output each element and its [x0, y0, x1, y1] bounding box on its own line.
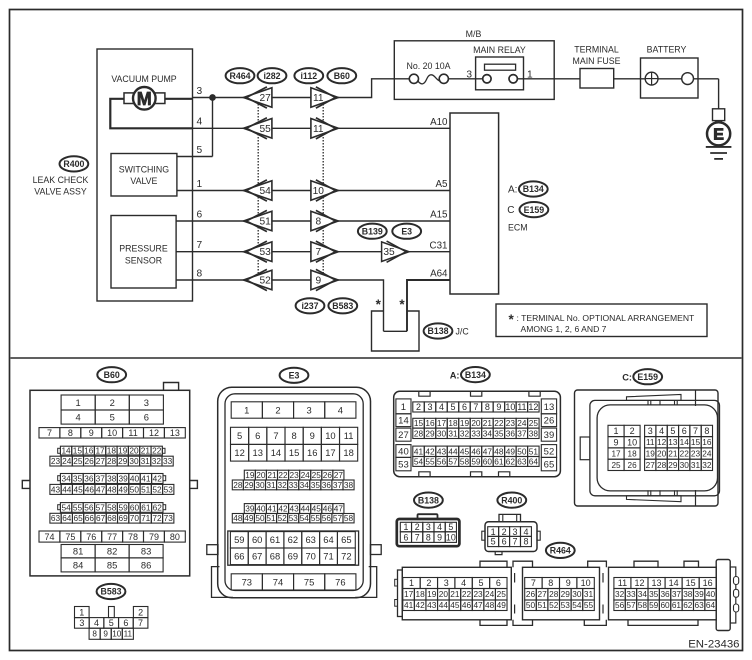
label i282	[258, 68, 287, 83]
svg-text:4: 4	[76, 411, 81, 422]
label R464 (schematic)	[226, 68, 255, 83]
svg-text:30: 30	[680, 460, 690, 470]
svg-text:A:: A:	[450, 370, 460, 380]
svg-text:20: 20	[256, 470, 266, 480]
svg-text:53: 53	[164, 484, 174, 494]
svg-text:7: 7	[693, 426, 698, 436]
R464 pins 11-16	[614, 578, 631, 589]
svg-text:26: 26	[323, 470, 333, 480]
svg-text:83: 83	[141, 546, 151, 557]
svg-text:R464: R464	[550, 546, 571, 556]
svg-text:C31: C31	[430, 240, 448, 251]
E3 pins 5-11	[231, 427, 249, 444]
svg-text:40: 40	[256, 504, 266, 514]
joint connector internal link	[384, 330, 408, 332]
svg-text:4: 4	[659, 426, 664, 436]
svg-text:61: 61	[672, 600, 682, 610]
svg-text:M: M	[137, 89, 152, 109]
svg-text:15: 15	[414, 418, 424, 428]
svg-text:65: 65	[544, 460, 555, 471]
B134 pins 2-12	[413, 402, 424, 412]
svg-text:5: 5	[491, 537, 496, 547]
svg-text:28: 28	[233, 480, 243, 490]
svg-text:26: 26	[85, 456, 95, 466]
svg-text:R400: R400	[501, 495, 522, 505]
leak check valve assy R400 outline box	[97, 49, 193, 301]
connector B138 body	[418, 514, 438, 518]
svg-text:44: 44	[439, 600, 449, 610]
svg-text:50: 50	[517, 446, 527, 456]
svg-text:C:: C:	[622, 372, 632, 382]
svg-text:EN-23436: EN-23436	[688, 638, 739, 650]
svg-text:39: 39	[118, 473, 128, 483]
connector terminal 8 (right) row6	[311, 211, 338, 231]
svg-text:11: 11	[313, 93, 324, 104]
svg-text:70: 70	[305, 551, 315, 562]
wire battery to ground	[718, 79, 720, 109]
svg-text:24: 24	[517, 418, 527, 428]
svg-text:7: 7	[47, 428, 52, 438]
svg-text:27: 27	[646, 460, 656, 470]
svg-text:49: 49	[497, 600, 507, 610]
svg-text:B138: B138	[418, 495, 439, 505]
switching valve box	[111, 154, 177, 197]
B134 pin 52	[541, 445, 556, 458]
svg-text:E: E	[713, 126, 724, 143]
svg-text:64: 64	[529, 456, 539, 466]
svg-text:32: 32	[702, 460, 712, 470]
svg-text:37: 37	[517, 428, 527, 438]
svg-text:46: 46	[462, 600, 472, 610]
svg-text:52: 52	[544, 446, 555, 457]
svg-text:45: 45	[312, 504, 322, 514]
svg-text:14: 14	[61, 446, 71, 456]
B134 pin 40	[396, 445, 411, 458]
svg-text:20: 20	[471, 418, 481, 428]
svg-text:28: 28	[657, 460, 667, 470]
svg-text:20: 20	[657, 449, 667, 459]
connector B134 body	[394, 391, 561, 476]
svg-text:15: 15	[686, 578, 696, 588]
label E3 (schematic)	[392, 224, 421, 239]
svg-text:13: 13	[652, 578, 662, 588]
svg-text:R464: R464	[229, 71, 250, 81]
svg-text:17: 17	[325, 447, 335, 458]
svg-text:8: 8	[485, 402, 490, 412]
E3 left bracket	[212, 567, 234, 598]
E3 right wing	[371, 545, 382, 555]
ECM box	[450, 113, 499, 294]
R464 pins 17-25	[403, 589, 415, 601]
svg-text:35: 35	[311, 480, 321, 490]
label R464 (pinout)	[546, 543, 575, 558]
svg-text:51: 51	[266, 513, 276, 523]
svg-text:3: 3	[197, 86, 203, 97]
label i112	[294, 68, 323, 83]
connector terminal 27 (left) row3	[244, 88, 272, 108]
B583 pins 8-11	[89, 628, 100, 639]
svg-text:77: 77	[107, 532, 117, 542]
wire pin7 to ECM C31	[176, 251, 450, 253]
svg-text:56: 56	[322, 513, 332, 523]
svg-text:14: 14	[680, 437, 690, 447]
svg-text:49: 49	[119, 484, 129, 494]
svg-text:61: 61	[494, 456, 504, 466]
B134 pin 39	[541, 428, 556, 441]
svg-text:1: 1	[614, 426, 619, 436]
svg-text:22: 22	[462, 589, 472, 599]
svg-text:25: 25	[497, 589, 507, 599]
svg-text:63: 63	[305, 534, 315, 545]
E3 pins 59-65	[230, 532, 248, 548]
svg-text:B134: B134	[523, 184, 544, 194]
svg-text:31: 31	[266, 480, 276, 490]
svg-text:2: 2	[630, 426, 635, 436]
svg-text:32: 32	[460, 428, 470, 438]
svg-text:38: 38	[344, 480, 354, 490]
B138 pins 6-10	[400, 532, 411, 543]
svg-text:32: 32	[277, 480, 287, 490]
R400 pins 1-4	[488, 527, 499, 537]
svg-text:1: 1	[197, 179, 203, 190]
svg-text:15: 15	[289, 447, 299, 458]
connector terminal 52 (left) row8	[244, 270, 272, 290]
ground E symbol	[715, 121, 717, 124]
svg-text:5: 5	[237, 430, 242, 441]
svg-text:42: 42	[416, 600, 426, 610]
B583 top key	[109, 607, 115, 618]
svg-text:29: 29	[561, 589, 571, 599]
svg-text:VALVE: VALVE	[130, 176, 157, 186]
svg-text:27: 27	[96, 456, 106, 466]
svg-text:8: 8	[68, 428, 73, 438]
svg-text:AMONG 1, 2, 6 AND 7: AMONG 1, 2, 6 AND 7	[521, 324, 607, 334]
connector terminal 54 (left) row1	[244, 181, 272, 201]
terminal main fuse box	[580, 69, 614, 89]
E159 bottom key	[627, 496, 682, 502]
connector terminal 9 (right) row8	[311, 270, 338, 290]
svg-text:5: 5	[670, 426, 675, 436]
dotted connector grouping line left	[257, 104, 259, 273]
svg-text:29: 29	[425, 428, 435, 438]
svg-text:4: 4	[439, 402, 444, 412]
svg-text:33: 33	[626, 589, 636, 599]
svg-text:1: 1	[79, 607, 84, 617]
svg-text:31: 31	[691, 460, 701, 470]
svg-text:9: 9	[103, 630, 108, 639]
connector terminal 11 (right) row3	[311, 88, 338, 108]
svg-text:56: 56	[84, 502, 94, 512]
svg-text:3: 3	[426, 522, 431, 532]
svg-text:B138: B138	[427, 326, 448, 336]
B60 pins 54-62	[60, 503, 71, 513]
svg-text:6: 6	[144, 411, 149, 422]
svg-text:37: 37	[96, 473, 106, 483]
svg-text:60: 60	[252, 534, 262, 545]
svg-text:A10: A10	[430, 117, 448, 128]
svg-text:30: 30	[572, 589, 582, 599]
svg-text:11: 11	[344, 430, 354, 441]
svg-text:31: 31	[584, 589, 594, 599]
wire ECM A64 to joint connector	[407, 280, 450, 331]
svg-text:40: 40	[706, 589, 716, 599]
svg-text:6: 6	[462, 402, 467, 412]
svg-text:61: 61	[270, 534, 280, 545]
svg-text:20: 20	[129, 446, 139, 456]
svg-text:4: 4	[437, 522, 442, 532]
svg-text:39: 39	[245, 504, 255, 514]
E3 pins 1-4	[231, 402, 262, 418]
E3 pins 39-47	[244, 504, 255, 514]
svg-text:28: 28	[549, 589, 559, 599]
svg-text:45: 45	[73, 484, 83, 494]
svg-text:36: 36	[322, 480, 332, 490]
svg-text:5: 5	[110, 411, 115, 422]
svg-text:13: 13	[544, 402, 555, 413]
svg-text:21: 21	[450, 589, 460, 599]
svg-text:62: 62	[506, 456, 516, 466]
svg-text:42: 42	[425, 446, 435, 456]
svg-text:54: 54	[260, 186, 272, 197]
svg-text:18: 18	[416, 589, 426, 599]
svg-text:12: 12	[634, 578, 644, 588]
svg-text:2: 2	[138, 607, 143, 617]
svg-text:51: 51	[537, 600, 547, 610]
svg-text:11: 11	[618, 578, 627, 588]
svg-text:B139: B139	[362, 226, 383, 236]
B60 pins 84-86	[61, 558, 95, 572]
svg-text:71: 71	[323, 551, 333, 562]
svg-text:21: 21	[668, 449, 678, 459]
svg-text:3: 3	[648, 426, 653, 436]
svg-text:ECM: ECM	[508, 223, 528, 233]
svg-text:73: 73	[164, 513, 174, 523]
svg-text:19: 19	[245, 470, 255, 480]
connector terminal 51 (left) row6	[244, 211, 272, 231]
svg-text:30: 30	[437, 428, 447, 438]
svg-text:7: 7	[138, 618, 143, 628]
svg-text:3: 3	[444, 578, 449, 588]
E3 pins 66-72	[230, 548, 248, 565]
svg-text:55: 55	[260, 124, 272, 135]
svg-text:85: 85	[107, 559, 117, 570]
svg-text:56: 56	[437, 456, 447, 466]
svg-text:7: 7	[531, 578, 536, 588]
svg-text:18: 18	[107, 446, 117, 456]
svg-text:35: 35	[383, 247, 395, 258]
svg-text:47: 47	[334, 504, 344, 514]
B583 pins 3-7	[75, 618, 90, 629]
B134 pin 13	[541, 399, 556, 414]
svg-text:84: 84	[73, 559, 83, 570]
E3 pins 12-18	[231, 444, 249, 461]
svg-text:16: 16	[307, 447, 317, 458]
svg-text:8: 8	[315, 217, 321, 228]
svg-text:48: 48	[233, 513, 243, 523]
svg-text:5: 5	[450, 402, 455, 412]
svg-text:80: 80	[170, 532, 180, 542]
svg-text:SENSOR: SENSOR	[125, 256, 162, 266]
label i237	[296, 298, 325, 313]
svg-text:22: 22	[152, 446, 162, 456]
note box: terminal optional arrangement	[496, 304, 707, 337]
svg-text:27: 27	[334, 470, 344, 480]
svg-text:31: 31	[448, 428, 458, 438]
E3 pins 48-58	[232, 514, 243, 523]
svg-text:7: 7	[415, 532, 420, 542]
svg-text:5: 5	[109, 618, 114, 628]
svg-text:22: 22	[680, 449, 690, 459]
R464 pins 1-6	[403, 578, 420, 589]
svg-text:9: 9	[89, 428, 94, 438]
connector terminal 10 (right) row1	[311, 181, 338, 201]
svg-text:B583: B583	[100, 587, 121, 597]
B60 pins 7-13	[39, 428, 60, 438]
svg-text:B60: B60	[104, 370, 120, 380]
svg-text:58: 58	[638, 600, 648, 610]
label B60 (schematic)	[327, 68, 356, 83]
svg-text:18: 18	[343, 447, 353, 458]
wire pin1 to ECM A5	[177, 190, 450, 192]
svg-text:20: 20	[439, 589, 449, 599]
svg-text:16: 16	[703, 578, 713, 588]
svg-text:36: 36	[660, 589, 670, 599]
svg-text:10: 10	[581, 578, 591, 588]
svg-text:TERMINAL: TERMINAL	[574, 45, 619, 55]
svg-text:7: 7	[513, 537, 518, 547]
svg-text:57: 57	[333, 513, 343, 523]
svg-text:4: 4	[461, 578, 466, 588]
svg-text:3: 3	[428, 402, 433, 412]
svg-text:12: 12	[657, 437, 667, 447]
svg-text:47: 47	[483, 446, 493, 456]
svg-text:54: 54	[414, 456, 424, 466]
B583 pin 1	[75, 607, 90, 618]
svg-text:27: 27	[537, 589, 547, 599]
svg-text:24: 24	[702, 449, 712, 459]
svg-text:51: 51	[141, 484, 151, 494]
svg-text:45: 45	[450, 600, 460, 610]
R464 pins 7-10	[525, 578, 542, 589]
ground terminal block	[713, 109, 725, 121]
svg-text:81: 81	[73, 546, 83, 557]
wire pin5	[177, 156, 213, 158]
svg-text:41: 41	[141, 473, 151, 483]
B134 pin 1	[396, 399, 411, 414]
svg-text:No. 20 10A: No. 20 10A	[406, 61, 450, 71]
svg-text:52: 52	[152, 484, 162, 494]
svg-text:62: 62	[288, 534, 298, 545]
E3 pins 19-27	[244, 470, 255, 480]
svg-text:62: 62	[683, 600, 693, 610]
svg-text:17: 17	[95, 446, 105, 456]
svg-text:11: 11	[313, 124, 324, 135]
svg-text:75: 75	[65, 532, 75, 542]
svg-text:63: 63	[695, 600, 705, 610]
E3 pin band 59-72	[228, 531, 359, 565]
svg-text:39: 39	[544, 430, 555, 441]
svg-text:55: 55	[73, 502, 83, 512]
label B583 (pinout)	[97, 584, 126, 599]
svg-text:24: 24	[62, 456, 72, 466]
B60 pins 43-53	[50, 484, 61, 494]
svg-text:36: 36	[84, 473, 94, 483]
joint connector B138 box	[372, 311, 420, 351]
svg-text:4: 4	[338, 404, 343, 415]
svg-text:34: 34	[61, 473, 71, 483]
B134 pin 27	[396, 428, 411, 441]
wire junction node pin3/pin5	[210, 95, 215, 100]
svg-text:53: 53	[260, 247, 272, 258]
svg-text:43: 43	[437, 446, 447, 456]
svg-text:19: 19	[427, 589, 437, 599]
svg-text:76: 76	[335, 576, 345, 587]
svg-text:33: 33	[471, 428, 481, 438]
svg-text:B60: B60	[334, 71, 350, 81]
svg-text:11: 11	[128, 428, 137, 438]
svg-text:26: 26	[544, 416, 555, 427]
svg-text:7: 7	[197, 240, 203, 251]
svg-text:E159: E159	[524, 205, 545, 215]
R464 pins 41-49	[403, 600, 415, 611]
svg-text:58: 58	[344, 513, 354, 523]
svg-text:6: 6	[123, 618, 128, 628]
connector R400 body	[499, 514, 521, 521]
svg-text:74: 74	[273, 576, 283, 587]
svg-text:4: 4	[523, 527, 528, 537]
svg-text:57: 57	[448, 456, 458, 466]
svg-text:43: 43	[427, 600, 437, 610]
svg-text:18: 18	[448, 418, 458, 428]
svg-text:12: 12	[149, 428, 159, 438]
svg-text:23: 23	[473, 589, 483, 599]
svg-text:31: 31	[141, 456, 151, 466]
svg-text:10: 10	[112, 630, 122, 639]
svg-text:2: 2	[110, 397, 115, 408]
B134 pins 41-51	[413, 446, 424, 456]
svg-text:60: 60	[130, 502, 140, 512]
svg-text:58: 58	[107, 502, 117, 512]
svg-text:61: 61	[141, 502, 151, 512]
R464 pins 56-64	[614, 600, 625, 611]
svg-text:MAIN FUSE: MAIN FUSE	[573, 56, 621, 66]
svg-text:86: 86	[141, 559, 151, 570]
connector B60 body	[30, 390, 190, 576]
B134 pin 53	[396, 457, 411, 470]
pressure sensor box	[111, 216, 176, 289]
label R400	[60, 156, 89, 171]
svg-text:9: 9	[496, 402, 501, 412]
B134 pin 26	[541, 414, 556, 427]
svg-text:5: 5	[448, 522, 453, 532]
svg-text:10: 10	[325, 430, 335, 441]
svg-text:6: 6	[682, 426, 687, 436]
B60 pins 34-42	[60, 474, 71, 484]
svg-text:50: 50	[526, 600, 536, 610]
svg-text:46: 46	[85, 484, 95, 494]
svg-text:1: 1	[403, 522, 408, 532]
svg-text:8: 8	[704, 426, 709, 436]
svg-text:i237: i237	[301, 301, 318, 311]
svg-text:E3: E3	[401, 226, 412, 236]
svg-text:53: 53	[561, 600, 571, 610]
svg-text:52: 52	[277, 513, 287, 523]
svg-text:66: 66	[234, 551, 244, 562]
svg-text:69: 69	[119, 513, 129, 523]
svg-text:65: 65	[73, 513, 83, 523]
svg-text:54: 54	[300, 513, 310, 523]
connector terminal 7 (right) row7	[311, 242, 338, 262]
